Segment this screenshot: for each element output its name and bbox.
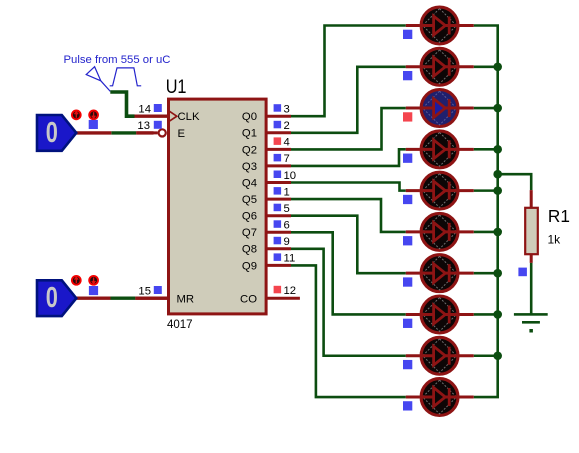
LED D10 state square — [403, 401, 412, 410]
svg-text:Q1: Q1 — [242, 128, 257, 140]
svg-text:10: 10 — [284, 170, 297, 182]
logicstate 0 (MR) body — [37, 280, 76, 316]
junction on bus at D7 — [493, 269, 502, 278]
svg-text:7: 7 — [284, 153, 290, 165]
svg-text:Q9: Q9 — [242, 260, 257, 272]
svg-text:11: 11 — [284, 253, 296, 265]
svg-text:0: 0 — [46, 117, 58, 149]
svg-text:Q6: Q6 — [242, 211, 257, 223]
resistor R1 body — [525, 208, 538, 254]
wire pulse to CLK pin 14 — [110, 92, 134, 116]
svg-text:3: 3 — [284, 104, 290, 116]
svg-text:13: 13 — [137, 120, 150, 132]
pin 12 state square — [274, 286, 282, 294]
wire Q9 to LED D10 — [291, 265, 406, 397]
wire Q5 to LED D6 — [291, 199, 406, 232]
pin 7 state square — [274, 154, 282, 162]
wire LED D2 cathode to bus — [474, 65, 498, 68]
logicstate 0 (MR) down button — [89, 276, 98, 285]
wire Q0 to LED D1 — [291, 26, 406, 117]
svg-text:2: 2 — [284, 120, 290, 132]
wire LED D4 cathode to bus — [474, 148, 498, 151]
LED D9 state square — [403, 360, 412, 369]
R1 state square — [518, 268, 527, 277]
svg-text:0: 0 — [46, 282, 58, 314]
pin 6 Q7 stub — [266, 231, 291, 234]
pin 11 state square — [274, 253, 282, 261]
wire LED D5 cathode to bus — [474, 189, 498, 192]
pin 10 Q4 stub — [266, 181, 291, 184]
ground — [514, 313, 548, 332]
pulse source arrow symbol — [86, 67, 110, 92]
LED D7 state square — [403, 277, 412, 286]
LED D8 — [406, 296, 474, 333]
wire LED D3 cathode to bus — [474, 107, 498, 110]
wire Q8 to LED D9 — [291, 249, 406, 356]
wire Q4 to LED D5 — [291, 183, 406, 191]
wire Q1 to LED D2 — [291, 67, 406, 133]
pin 15 state square — [154, 286, 162, 294]
svg-text:R1: R1 — [548, 206, 570, 226]
LED D2 state square — [403, 71, 412, 80]
LED D3 state square — [403, 112, 412, 121]
pin 6 state square — [274, 220, 282, 228]
pin 13 E stub — [136, 131, 157, 134]
junction on bus at D9 — [493, 351, 502, 360]
LED D4 state square — [403, 154, 412, 163]
pin 9 Q8 stub — [266, 247, 291, 250]
LED D9 — [406, 337, 474, 374]
wire Q7 to LED D8 — [291, 232, 406, 314]
wire LED D6 cathode to bus — [474, 231, 498, 234]
logicstate input 0 (MR) pin lead — [76, 297, 168, 300]
E pin inverter bubble — [159, 129, 166, 136]
svg-text:Q4: Q4 — [242, 177, 257, 189]
pin 14 state square — [154, 104, 162, 112]
svg-text:1: 1 — [284, 186, 290, 198]
logicstate 0 (MR) state square — [89, 286, 98, 295]
CLK clock triangle — [170, 111, 177, 121]
wire logicstate to MR pin 15 — [111, 297, 136, 300]
svg-text:Pulse from 555 or uC: Pulse from 555 or uC — [64, 54, 171, 66]
junction on bus at D6 — [493, 228, 502, 237]
wire Q6 to LED D7 — [291, 216, 406, 273]
svg-text:CO: CO — [240, 293, 257, 305]
svg-text:4017: 4017 — [167, 319, 193, 331]
svg-text:Q2: Q2 — [242, 144, 257, 156]
pin 14 CLK stub — [135, 114, 169, 117]
svg-text:Q7: Q7 — [242, 227, 257, 239]
wire Q3 to LED D4 — [291, 149, 406, 166]
resistor R1 bottom lead — [530, 255, 533, 263]
svg-text:E: E — [178, 128, 186, 140]
pin 4 Q2 stub — [266, 148, 291, 151]
pin 2 state square — [274, 121, 282, 129]
LED D3 (lit) — [406, 90, 474, 127]
LED D8 state square — [403, 319, 412, 328]
LED D4 — [406, 131, 474, 168]
wire bus to R1 — [498, 174, 532, 190]
svg-text:Q8: Q8 — [242, 244, 257, 256]
pin 10 state square — [274, 171, 282, 179]
junction on bus at D2 — [493, 62, 502, 71]
resistor R1 top lead — [530, 190, 533, 207]
wire LED D9 cathode to bus — [474, 354, 498, 357]
svg-text:14: 14 — [138, 103, 151, 115]
pin 15 MR stub — [135, 297, 168, 300]
pin 3 state square — [274, 104, 282, 112]
junction on bus at D3 — [493, 104, 502, 113]
LED D1 — [406, 7, 474, 44]
wire LED D7 cathode to bus — [474, 272, 498, 275]
pulse waveform symbol — [110, 68, 142, 86]
pin 4 state square — [274, 137, 282, 145]
junction on bus at R1 branch — [493, 170, 502, 179]
logicstate 0 (E) state square — [89, 120, 98, 129]
pin 7 Q3 stub — [266, 164, 291, 167]
wire LED D8 cathode to bus — [474, 313, 498, 316]
pin 13 state square — [154, 121, 162, 129]
wire logicstate to E pin 13 — [111, 131, 136, 134]
svg-text:U1: U1 — [166, 76, 187, 98]
svg-text:Q3: Q3 — [242, 161, 257, 173]
junction on bus at D8 — [493, 310, 502, 319]
LED D2 — [406, 48, 474, 85]
pin 2 Q1 stub — [266, 131, 291, 134]
pin 1 state square — [274, 187, 282, 195]
pin 1 Q5 stub — [266, 198, 291, 201]
LED D6 — [406, 213, 474, 250]
logicstate 0 (E) down button — [89, 111, 98, 120]
op: IC U1 4017 body — [169, 99, 267, 314]
LED D6 state square — [403, 236, 412, 245]
wire Q2 to LED D3 — [291, 108, 406, 149]
LED D7 — [406, 255, 474, 292]
pin 12 CO stub — [266, 297, 300, 300]
junction on bus at D5 — [493, 186, 502, 195]
svg-text:5: 5 — [284, 203, 290, 215]
svg-text:4: 4 — [284, 137, 290, 149]
svg-text:9: 9 — [284, 236, 290, 248]
LED D5 state square — [403, 195, 412, 204]
wire LED cathode bus — [474, 26, 498, 398]
svg-text:Q5: Q5 — [242, 194, 257, 206]
logicstate 0 (MR) up button — [72, 276, 81, 285]
pin 3 Q0 stub — [266, 115, 291, 118]
svg-text:15: 15 — [138, 285, 151, 297]
logicstate 0 (E) body — [37, 115, 76, 151]
pin 5 state square — [274, 204, 282, 212]
svg-text:CLK: CLK — [178, 111, 200, 123]
pin 9 state square — [274, 237, 282, 245]
LED D1 state square — [403, 30, 412, 39]
svg-text:Q0: Q0 — [242, 111, 257, 123]
svg-text:6: 6 — [284, 220, 290, 232]
logicstate input 0 (E) pin lead — [76, 131, 153, 134]
LED D5 — [406, 172, 474, 209]
pin 5 Q6 stub — [266, 214, 291, 217]
junction on bus at D4 — [493, 145, 502, 154]
wire R1 to ground — [530, 263, 533, 314]
svg-text:MR: MR — [177, 293, 195, 305]
svg-text:12: 12 — [284, 285, 297, 297]
svg-text:1k: 1k — [548, 233, 562, 247]
pin 11 Q9 stub — [266, 264, 291, 267]
logicstate 0 (E) up button — [72, 111, 81, 120]
LED D10 — [406, 379, 474, 416]
